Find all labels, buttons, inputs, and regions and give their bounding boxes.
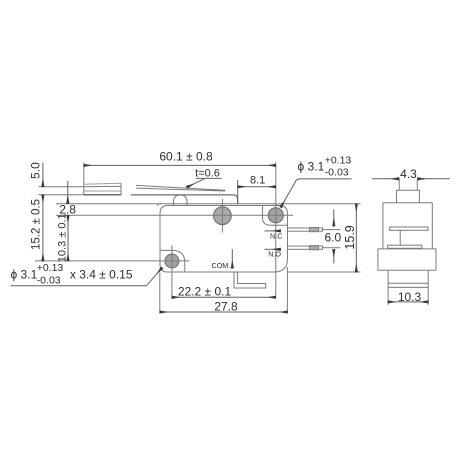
svg-text:COM.: COM. [212, 261, 231, 270]
lever left edge + 60.1 ext [83, 163, 85, 196]
dim 15.2 [42, 195, 44, 261]
svg-text:22.2 ± 0.1: 22.2 ± 0.1 [178, 285, 232, 299]
svg-text:-0.03: -0.03 [37, 275, 61, 287]
COM tab [234, 272, 266, 288]
svg-text:t=0.6: t=0.6 [195, 167, 220, 179]
leader t=0.6 [196, 177, 222, 179]
svg-text:+0.13: +0.13 [37, 262, 64, 274]
svg-text:ϕ 3.1: ϕ 3.1 [298, 160, 325, 174]
15.9 ext lines [278, 203, 361, 205]
arrow COM [231, 249, 233, 268]
svg-text:60.1 ± 0.8: 60.1 ± 0.8 [159, 150, 213, 164]
svg-text:8.1: 8.1 [250, 175, 265, 187]
dim 15.9 [355, 204, 357, 272]
pin N.C [288, 228, 323, 231]
svg-text:x 3.4 ± 0.15: x 3.4 ± 0.15 [70, 267, 133, 281]
svg-text:4.3: 4.3 [400, 167, 417, 181]
dim 2.8 [67, 181, 69, 203]
terminal bar 2 [388, 245, 422, 248]
dim 60.1 [84, 164, 276, 166]
arrow N.C [265, 230, 281, 232]
side view [378, 179, 436, 305]
svg-text:N.C: N.C [270, 231, 282, 240]
27.8 ext lines [159, 273, 161, 313]
svg-text:6.0: 6.0 [324, 230, 341, 244]
leader phi bottom [11, 268, 163, 286]
terminal bar 1 [390, 227, 428, 230]
dim 4.3 [372, 178, 399, 180]
crosshair v top-right hole / 60.1+22.2 ext [275, 162, 277, 297]
svg-text:N.O: N.O [268, 249, 281, 258]
pin N.O [288, 246, 323, 249]
hole bottom-left [165, 254, 179, 268]
neck [397, 190, 420, 203]
dim 6.0 [333, 209, 335, 226]
crosshair h through holes [56, 214, 293, 216]
svg-text:15.9: 15.9 [343, 225, 357, 249]
main block [383, 202, 432, 204]
dim 5.0 [42, 163, 44, 187]
body outline [160, 206, 288, 273]
svg-text:27.8: 27.8 [214, 300, 238, 314]
svg-text:10.3: 10.3 [398, 290, 422, 304]
dim 27.8 [160, 311, 288, 313]
svg-text:5.0: 5.0 [29, 162, 43, 179]
dim 8.1 [237, 180, 239, 204]
step [378, 248, 436, 250]
arrow N.O [265, 248, 281, 250]
boss top-right [263, 206, 288, 226]
bottom block [388, 270, 428, 305]
cover seam plate [56, 204, 278, 206]
leader phi top [281, 179, 352, 207]
svg-text:10.3 ± 0.1: 10.3 ± 0.1 [57, 213, 69, 262]
svg-text:15.2 ± 0.5: 15.2 ± 0.5 [31, 199, 43, 250]
svg-text:-0.03: -0.03 [325, 167, 349, 179]
svg-text:ϕ 3.1: ϕ 3.1 [11, 267, 38, 281]
hinge bump [174, 195, 188, 205]
ext lines left of lever [38, 186, 83, 188]
hole top-right [268, 208, 283, 223]
boss bottom-left [160, 250, 185, 271]
dim 10.3 side [388, 301, 428, 303]
lever wedge 1 (tip section) [84, 182, 121, 185]
plunger [398, 179, 400, 190]
lever wedge 2 (main blade) [136, 185, 225, 191]
svg-text:+0.13: +0.13 [325, 154, 352, 166]
dim 10.3 [67, 215, 69, 261]
plunger circle [214, 207, 232, 225]
center line [399, 230, 401, 245]
cover top line [131, 195, 238, 204]
dim 22.2 [172, 296, 276, 298]
